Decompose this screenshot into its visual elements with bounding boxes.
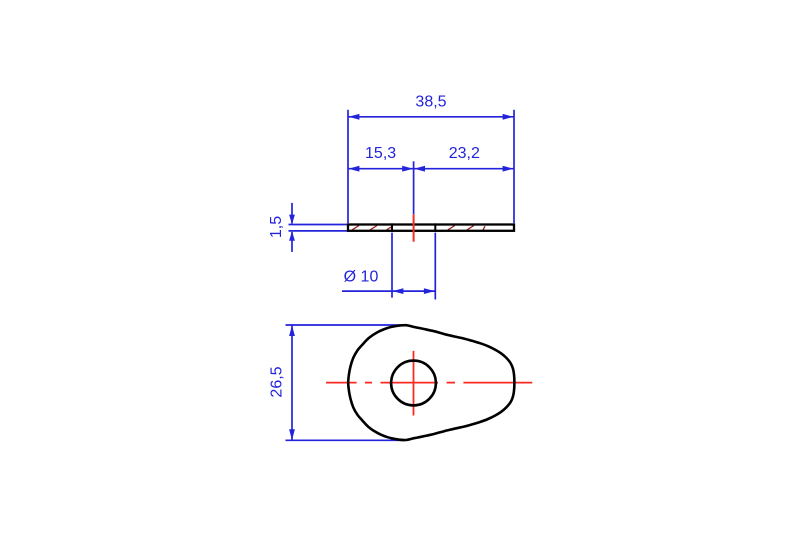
svg-text:26,5: 26,5 xyxy=(269,366,286,397)
svg-text:Ø 10: Ø 10 xyxy=(344,269,379,286)
svg-text:23,2: 23,2 xyxy=(449,145,480,162)
svg-text:1,5: 1,5 xyxy=(268,216,285,238)
svg-text:38,5: 38,5 xyxy=(415,93,446,110)
svg-text:15,3: 15,3 xyxy=(365,145,396,162)
